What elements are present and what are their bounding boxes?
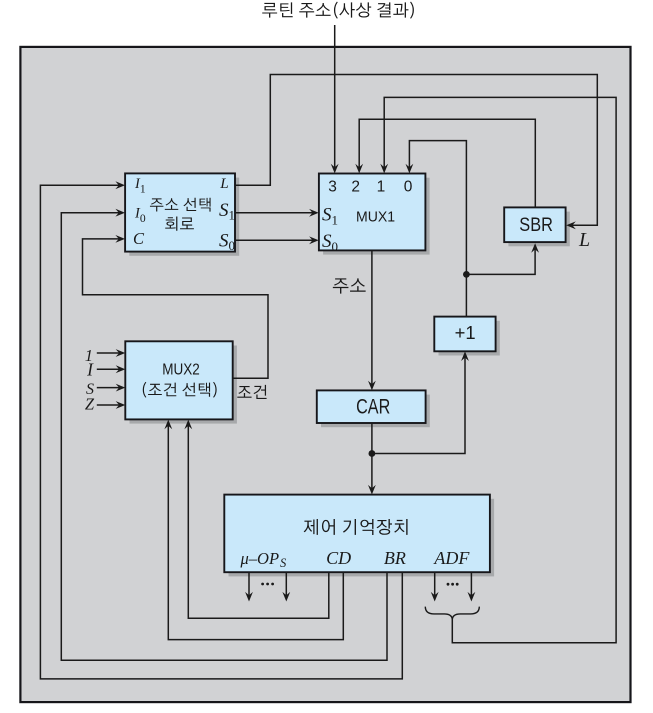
svg-text:L: L <box>578 229 590 251</box>
svg-text:BR: BR <box>384 548 406 568</box>
svg-text:2: 2 <box>351 178 360 195</box>
wire: routine address -> MUX1 input 3 <box>334 25 336 170</box>
wire: micro-op output arrow 2 <box>285 572 287 597</box>
svg-text:I: I <box>86 359 94 379</box>
wire: CD bit 2 -> MUX2 select <box>168 424 343 640</box>
svg-text:L: L <box>219 175 228 192</box>
wire: ADF output arrow 2 <box>470 572 472 597</box>
block: +1 incrementer <box>439 321 500 356</box>
label: address <box>333 278 366 293</box>
svg-text:SBR: SBR <box>519 215 553 236</box>
label: condition select <box>143 382 217 398</box>
label: address select (line 1) <box>150 198 211 212</box>
svg-text:S: S <box>280 556 287 570</box>
wire: +1 output -> MUX1 input 0 <box>409 141 466 317</box>
svg-text:MUX1: MUX1 <box>356 209 395 226</box>
block: control memory <box>229 499 495 577</box>
block: SBR <box>508 212 569 247</box>
block: MUX2 condition select <box>130 346 237 424</box>
svg-text:+1: +1 <box>455 322 476 343</box>
wires: status inputs 1,I,S,Z -> MUX2 <box>97 352 122 354</box>
wire: SBR output -> MUX1 input 2 <box>359 119 535 207</box>
label: control memory <box>304 519 408 535</box>
brace gathering ADF bits <box>425 607 479 620</box>
wire: S1 -> MUX1 S1 <box>235 212 315 214</box>
block: CAR <box>321 395 430 428</box>
wire: BR bit 1 -> I0 <box>61 213 387 661</box>
wire: CAR output branch -> +1 input <box>372 356 465 454</box>
svg-text:CAR: CAR <box>356 396 390 419</box>
junction dot on +1 output <box>463 271 470 278</box>
wire: +1 output branch -> SBR bottom input <box>466 248 535 275</box>
svg-text:Z: Z <box>85 395 95 414</box>
wire: L output of address-select circuit -> SBR L input <box>235 75 597 226</box>
wire: MUX2 condition output -> C input <box>83 239 269 378</box>
wire: CAR output -> control memory <box>371 423 373 491</box>
dots between ADF arrows <box>447 583 450 586</box>
svg-text:1: 1 <box>377 178 386 195</box>
svg-text:ADF: ADF <box>433 548 470 568</box>
wire: micro-op output arrow 1 <box>248 572 250 597</box>
svg-text:MUX2: MUX2 <box>162 362 200 379</box>
wire: CD bit 1 -> MUX2 select <box>188 424 328 619</box>
svg-text:0: 0 <box>404 178 413 195</box>
label: routine address (mapping result) <box>262 2 414 19</box>
wire: MUX1 output (address) -> CAR <box>371 250 373 386</box>
block: MUX1 <box>323 178 430 255</box>
wire: ADF field -> MUX1 input 1 <box>384 97 616 642</box>
wire: BR bit 2 -> I1 <box>40 185 402 679</box>
svg-text:C: C <box>133 229 145 248</box>
wire: S0 -> MUX1 S0 <box>235 239 315 241</box>
label: circuit (line 2) <box>165 217 194 231</box>
block: address selection circuit <box>129 178 239 256</box>
svg-text:3: 3 <box>328 178 337 195</box>
junction dot on CAR output <box>369 450 376 457</box>
svg-text:μ–OP: μ–OP <box>240 549 280 568</box>
svg-text:CD: CD <box>326 548 351 568</box>
wire: ADF output arrow 1 <box>434 572 436 597</box>
label: condition <box>237 385 266 399</box>
dots between micro-op arrows <box>261 583 264 586</box>
